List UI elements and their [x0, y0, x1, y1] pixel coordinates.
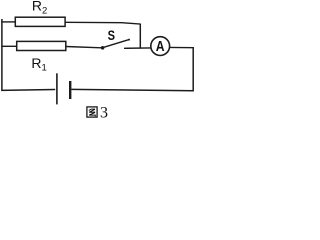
switch S pivot junction: [101, 46, 105, 50]
wire R2 branch right lead: [65, 22, 140, 24]
svg-text:S: S: [108, 27, 115, 43]
wire R1 branch left lead: [1, 45, 17, 47]
resistor R2: [15, 17, 65, 26]
switch S blade tip: [128, 39, 130, 41]
wire switch right terminal to ammeter: [124, 47, 151, 49]
battery positive long plate: [56, 73, 58, 104]
wire R1 branch right lead: [66, 47, 102, 48]
svg-text:R1: R1: [31, 55, 46, 74]
svg-text:R2: R2: [32, 0, 47, 16]
battery negative short plate: [69, 81, 71, 99]
switch S blade (open): [103, 40, 129, 48]
wire left vertical bus: [1, 19, 3, 91]
svg-text:A: A: [156, 39, 165, 55]
wire right drop from R2 branch: [139, 24, 141, 49]
caption character 图: [87, 107, 97, 117]
ammeter A: [151, 37, 170, 56]
wire R2 branch left lead: [1, 21, 15, 23]
wire battery to bottom right: [71, 89, 193, 90]
resistor R1: [17, 41, 66, 50]
wire bottom left to battery: [1, 89, 55, 92]
wire ammeter to right bus: [170, 46, 194, 48]
wire right vertical bus: [192, 47, 194, 91]
svg-text:3: 3: [100, 105, 108, 121]
